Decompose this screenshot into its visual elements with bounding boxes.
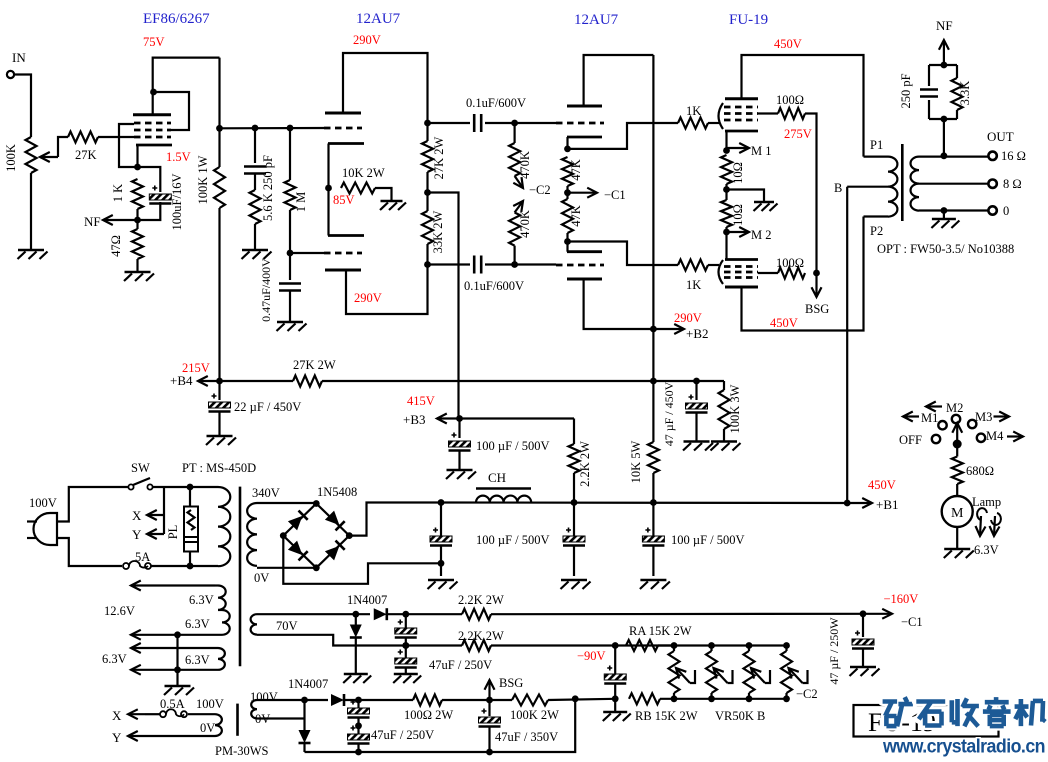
svg-text:−C1: −C1: [604, 188, 626, 202]
svg-text:−90V: −90V: [577, 649, 606, 663]
svg-text:16 Ω: 16 Ω: [1001, 149, 1026, 163]
svg-text:M4: M4: [986, 429, 1004, 443]
svg-text:10K 5W: 10K 5W: [629, 440, 643, 483]
svg-text:FU-19: FU-19: [729, 12, 768, 28]
svg-text:27K 2W: 27K 2W: [432, 136, 446, 179]
svg-text:OPT : FW50-3.5/ No10388: OPT : FW50-3.5/ No10388: [877, 242, 1014, 256]
svg-text:2.2K 2W: 2.2K 2W: [458, 593, 504, 607]
svg-text:1N5408: 1N5408: [317, 485, 357, 499]
svg-text:100K 1W: 100K 1W: [196, 155, 210, 204]
svg-text:70V: 70V: [276, 619, 298, 633]
svg-text:3.3K: 3.3K: [958, 81, 972, 106]
svg-text:0V: 0V: [254, 571, 269, 585]
svg-text:12AU7: 12AU7: [356, 11, 401, 27]
svg-text:1N4007: 1N4007: [288, 677, 328, 691]
svg-text:1.5V: 1.5V: [166, 150, 191, 164]
svg-text:33K 2W: 33K 2W: [431, 210, 445, 253]
svg-text:10Ω: 10Ω: [731, 162, 745, 184]
svg-text:470K: 470K: [518, 210, 532, 238]
svg-text:100K 2W: 100K 2W: [510, 708, 559, 722]
svg-text:RA 15K 2W: RA 15K 2W: [629, 624, 692, 638]
svg-text:1 M: 1 M: [294, 192, 308, 213]
svg-text:22 µF / 450V: 22 µF / 450V: [234, 400, 301, 414]
svg-text:6.3V: 6.3V: [102, 652, 127, 666]
svg-text:+B2: +B2: [686, 326, 709, 341]
svg-text:1 K: 1 K: [111, 184, 125, 202]
svg-text:2.2K 2W: 2.2K 2W: [458, 629, 504, 643]
svg-text:290V: 290V: [353, 33, 381, 47]
svg-text:NF: NF: [936, 18, 953, 33]
svg-text:PT : MS-450D: PT : MS-450D: [182, 461, 256, 475]
svg-text:0: 0: [1003, 204, 1009, 218]
svg-text:0.1uF/600V: 0.1uF/600V: [466, 96, 526, 110]
svg-text:85V: 85V: [333, 193, 355, 207]
svg-text:OUT: OUT: [987, 129, 1014, 144]
svg-text:PL: PL: [166, 525, 180, 540]
svg-text:100 µF / 500V: 100 µF / 500V: [671, 533, 745, 547]
svg-text:M1: M1: [921, 411, 938, 425]
svg-text:M 1: M 1: [751, 144, 772, 158]
svg-text:5.6 K 250 pF: 5.6 K 250 pF: [261, 155, 275, 221]
svg-text:10K 2W: 10K 2W: [342, 166, 385, 180]
svg-text:290V: 290V: [354, 291, 382, 305]
svg-text:M: M: [951, 506, 964, 521]
svg-text:100 µF / 500V: 100 µF / 500V: [476, 533, 550, 547]
svg-text:BSG: BSG: [805, 302, 829, 316]
svg-text:2.2K 2W: 2.2K 2W: [578, 441, 592, 487]
svg-text:www.crystalradio.cn: www.crystalradio.cn: [882, 736, 1045, 758]
svg-text:Lamp: Lamp: [972, 495, 1001, 509]
svg-text:250 pF: 250 pF: [899, 73, 913, 108]
svg-text:47uF / 250V: 47uF / 250V: [371, 728, 434, 742]
svg-text:SW: SW: [131, 461, 150, 475]
svg-text:415V: 415V: [407, 394, 435, 408]
svg-text:680Ω: 680Ω: [966, 464, 994, 478]
svg-text:75V: 75V: [143, 35, 165, 49]
svg-text:+B1: +B1: [876, 497, 899, 512]
svg-text:0V: 0V: [255, 712, 270, 726]
svg-text:+B3: +B3: [403, 412, 426, 427]
svg-text:−C2: −C2: [529, 183, 551, 197]
svg-text:47uF / 350V: 47uF / 350V: [495, 730, 558, 744]
svg-text:10Ω: 10Ω: [731, 204, 745, 226]
svg-text:0.1uF/600V: 0.1uF/600V: [464, 279, 524, 293]
svg-text:100Ω 2W: 100Ω 2W: [404, 708, 453, 722]
svg-text:6.3V: 6.3V: [185, 617, 210, 631]
svg-text:27K 2W: 27K 2W: [293, 358, 336, 372]
svg-text:275V: 275V: [784, 127, 812, 141]
svg-text:1K: 1K: [686, 278, 701, 292]
svg-text:12AU7: 12AU7: [574, 12, 619, 28]
svg-text:100K 3W: 100K 3W: [728, 384, 742, 433]
svg-text:8 Ω: 8 Ω: [1003, 177, 1022, 191]
svg-text:−C2: −C2: [796, 687, 818, 701]
svg-text:+B4: +B4: [170, 373, 193, 388]
svg-text:BSG: BSG: [499, 676, 523, 690]
svg-text:47Ω: 47Ω: [109, 235, 123, 257]
svg-text:Y: Y: [132, 527, 142, 542]
svg-text:470K: 470K: [518, 151, 532, 179]
svg-text:P1: P1: [870, 138, 883, 152]
svg-text:OFF: OFF: [899, 433, 922, 447]
svg-text:0V: 0V: [200, 721, 215, 735]
svg-text:Y: Y: [112, 730, 122, 745]
svg-text:−160V: −160V: [884, 592, 919, 606]
svg-text:NF: NF: [84, 214, 101, 229]
svg-text:47 µF / 450V: 47 µF / 450V: [662, 381, 676, 446]
svg-text:0.47uF/400V: 0.47uF/400V: [259, 258, 273, 322]
svg-text:EF86/6267: EF86/6267: [143, 11, 210, 27]
svg-text:47uF / 250V: 47uF / 250V: [429, 658, 492, 672]
svg-text:M 2: M 2: [751, 228, 772, 242]
svg-text:100V: 100V: [196, 697, 224, 711]
svg-text:6.3V: 6.3V: [974, 543, 999, 557]
svg-text:RB 15K 2W: RB 15K 2W: [635, 709, 698, 723]
svg-text:100V: 100V: [250, 690, 278, 704]
svg-text:27K: 27K: [75, 148, 97, 162]
svg-text:B: B: [834, 181, 842, 195]
svg-text:VR50K B: VR50K B: [715, 709, 765, 723]
svg-text:0.5A: 0.5A: [160, 697, 185, 711]
svg-text:100K: 100K: [4, 144, 18, 172]
svg-text:215V: 215V: [182, 361, 210, 375]
svg-text:450V: 450V: [770, 316, 798, 330]
svg-text:1K: 1K: [686, 104, 701, 118]
svg-text:IN: IN: [12, 50, 26, 65]
svg-text:47K: 47K: [569, 205, 583, 227]
svg-text:6.3V: 6.3V: [189, 593, 214, 607]
svg-text:100V: 100V: [29, 496, 57, 510]
svg-text:CH: CH: [488, 470, 506, 485]
svg-text:1N4007: 1N4007: [347, 593, 387, 607]
svg-text:100 µF / 500V: 100 µF / 500V: [476, 439, 550, 453]
svg-text:M2: M2: [946, 401, 963, 415]
svg-text:X: X: [132, 508, 142, 523]
svg-text:PM-30WS: PM-30WS: [215, 744, 269, 757]
svg-text:450V: 450V: [774, 37, 802, 51]
svg-text:290V: 290V: [674, 311, 702, 325]
svg-text:100Ω: 100Ω: [776, 256, 804, 270]
svg-text:X: X: [112, 708, 122, 723]
svg-text:P2: P2: [870, 224, 883, 238]
svg-text:100Ω: 100Ω: [776, 93, 804, 107]
svg-text:340V: 340V: [252, 486, 280, 500]
svg-text:6.3V: 6.3V: [185, 653, 210, 667]
svg-text:12.6V: 12.6V: [104, 604, 135, 618]
svg-text:47 µF / 250W: 47 µF / 250W: [827, 617, 841, 685]
svg-text:100uF/16V: 100uF/16V: [170, 174, 184, 231]
svg-text:M3: M3: [975, 410, 992, 424]
svg-text:47K: 47K: [569, 159, 583, 181]
svg-text:450V: 450V: [868, 478, 896, 492]
svg-text:−C1: −C1: [901, 615, 923, 629]
